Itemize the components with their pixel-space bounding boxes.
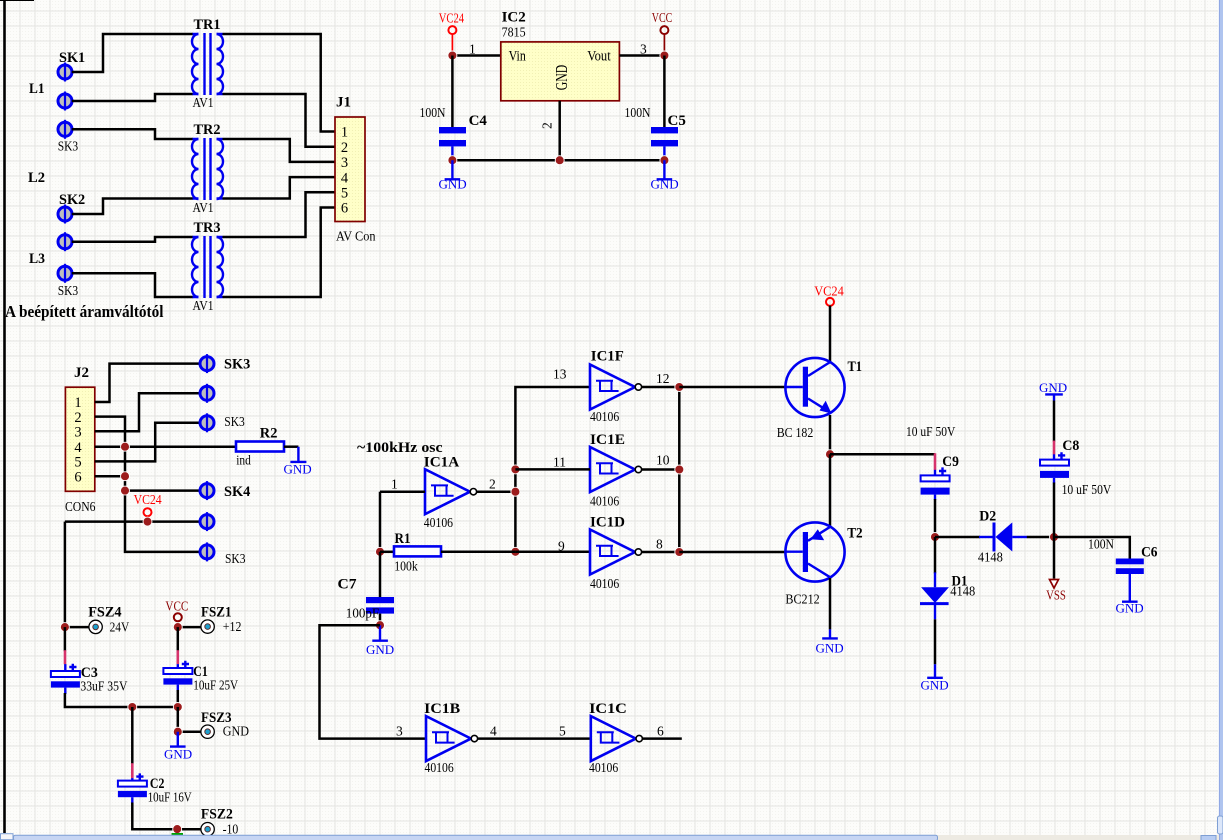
svg-text:CON6: CON6 — [65, 499, 96, 514]
inverter IC1B — [426, 716, 478, 761]
svg-text:5: 5 — [74, 455, 81, 471]
wire VC24 row to pad — [65, 520, 201, 523]
connector J1 — [335, 117, 365, 222]
svg-text:IC2: IC2 — [502, 10, 526, 26]
wire J2 pin2 trunk down to pad SK3-f — [95, 417, 201, 552]
power port VCC (left) — [165, 599, 188, 628]
svg-text:100N: 100N — [420, 105, 446, 120]
wire SK1 to TR1 primary top — [72, 34, 193, 72]
svg-text:SK3: SK3 — [58, 283, 79, 298]
wire C7 to IC1B input pin3 — [320, 625, 427, 738]
wire D1 bottom — [934, 619, 937, 664]
capacitor C7 — [366, 597, 394, 614]
svg-text:VCC: VCC — [165, 599, 188, 614]
svg-text:40106: 40106 — [425, 760, 454, 775]
capacitor C3 polarized — [51, 664, 80, 694]
svg-text:40106: 40106 — [590, 494, 619, 509]
capacitor C6 — [1116, 559, 1144, 575]
wire IC1E out pin10 — [642, 468, 680, 471]
svg-text:5: 5 — [341, 186, 348, 202]
capacitor C4 — [439, 127, 466, 160]
junction FSZ4 — [60, 623, 69, 632]
svg-text:24V: 24V — [110, 619, 130, 634]
pad SK-d — [200, 384, 214, 403]
pin magenta C3 — [64, 650, 67, 664]
svg-text:3: 3 — [341, 155, 348, 171]
wire L1 to TR1 primary bottom — [72, 94, 193, 101]
svg-text:GND: GND — [552, 65, 571, 90]
wire R1 left lead — [380, 551, 394, 554]
svg-text:GND: GND — [164, 747, 192, 762]
wire branch to pad SK4 — [125, 489, 200, 492]
junction bus pin10 — [675, 465, 684, 474]
svg-text:TR2: TR2 — [194, 122, 221, 138]
diode D1 — [920, 572, 949, 619]
wire J2 pin5 to pad SK3 — [95, 423, 201, 462]
wire VC24 to IC2 Vin — [452, 54, 500, 57]
svg-text:AV1: AV1 — [193, 200, 214, 215]
svg-text:VCC: VCC — [652, 10, 673, 25]
svg-text:3: 3 — [396, 724, 403, 739]
svg-text:10: 10 — [656, 453, 670, 468]
pad SK4 — [200, 481, 214, 500]
wire C2 top — [131, 707, 134, 764]
svg-text:IC1E: IC1E — [590, 432, 625, 448]
capacitor C2 polarized — [118, 773, 147, 803]
transistor T1 — [785, 358, 844, 417]
svg-text:SK3: SK3 — [225, 551, 246, 566]
svg-text:AV1: AV1 — [193, 298, 214, 313]
svg-text:10 uF 50V: 10 uF 50V — [906, 424, 956, 439]
svg-text:3: 3 — [74, 425, 81, 441]
testpoint FSZ3 — [201, 725, 214, 738]
svg-text:GND: GND — [366, 642, 394, 657]
wire C2 bottom to FSZ2 — [132, 803, 201, 830]
wire VC24 to T1 collector — [829, 306, 832, 363]
svg-text:33uF 35V: 33uF 35V — [80, 679, 127, 694]
pad L3-a — [58, 232, 72, 251]
wire output bus vertical — [678, 387, 681, 552]
wire IC2 Vout to VCC node — [619, 54, 664, 57]
capacitor C1 polarized — [163, 661, 192, 691]
erc marker green — [172, 833, 184, 835]
wire IC1E input pin11 — [515, 468, 590, 471]
svg-text:4: 4 — [341, 170, 349, 186]
junction rail-C4 — [448, 156, 457, 165]
svg-text:IC1D: IC1D — [590, 515, 625, 531]
svg-text:AV1: AV1 — [193, 95, 214, 110]
svg-text:R2: R2 — [260, 425, 278, 441]
wire L3-b to TR3 primary bottom — [72, 273, 193, 297]
wire D-node to D1 — [934, 537, 937, 573]
junction FSZ2 — [173, 825, 182, 834]
svg-text:6: 6 — [657, 724, 664, 739]
scrollbar right track — [1219, 0, 1223, 840]
svg-text:2: 2 — [489, 477, 496, 492]
svg-text:R1: R1 — [395, 531, 411, 547]
junction R1 left — [376, 547, 385, 556]
resistor R1 — [394, 546, 441, 556]
pad L3-b — [58, 264, 72, 283]
svg-text:IC1C: IC1C — [589, 701, 627, 717]
sheet border top — [0, 0, 34, 2]
pin magenta C9 — [934, 453, 937, 470]
svg-text:GND: GND — [223, 724, 250, 739]
junction VCC — [173, 623, 182, 632]
testpoint FSZ4 — [89, 620, 102, 633]
junction C7 — [376, 621, 385, 630]
svg-text:1: 1 — [469, 42, 476, 57]
testpoint FSZ2 — [201, 823, 214, 836]
svg-text:4: 4 — [490, 724, 497, 739]
svg-text:-10: -10 — [223, 822, 239, 837]
pad SK2 — [58, 205, 72, 224]
wire emitter node to C9 — [830, 453, 935, 456]
wire feedback trunk — [515, 387, 590, 552]
svg-text:VC24: VC24 — [439, 11, 465, 26]
wire SK2 to TR2 primary bottom — [72, 199, 193, 215]
wire J2 pin3 to pad — [95, 393, 201, 431]
svg-text:40106: 40106 — [590, 409, 619, 424]
wire input left vertical — [379, 492, 382, 552]
svg-text:ind: ind — [236, 453, 251, 468]
svg-text:100N: 100N — [625, 105, 651, 120]
wire TR2 secondary top to J1 pin3 — [223, 139, 336, 162]
svg-text:11: 11 — [553, 455, 566, 470]
svg-text:100pF: 100pF — [346, 606, 380, 621]
sheet border left — [3, 0, 6, 833]
svg-text:SK4: SK4 — [224, 484, 251, 500]
svg-text:L1: L1 — [29, 81, 45, 97]
wire IC1D out pin8 — [642, 551, 680, 554]
junction rail C2 — [128, 703, 137, 712]
svg-text:C5: C5 — [668, 113, 686, 129]
svg-text:BC 182: BC 182 — [777, 425, 814, 440]
pad L1-b — [58, 92, 72, 111]
scrollbar bottom-left box — [1, 834, 14, 840]
svg-text:GND: GND — [439, 177, 467, 192]
svg-text:2: 2 — [74, 410, 81, 426]
pad SK3-c — [200, 354, 214, 373]
wire rail down to FSZ3 — [177, 707, 180, 732]
wire to FSZ3 — [178, 730, 201, 733]
testpoint FSZ1 — [201, 620, 214, 633]
wire L3-a to TR3 primary top — [72, 237, 193, 242]
svg-text:C9: C9 — [942, 454, 959, 470]
pin numbers J1 1-6 — [341, 125, 349, 217]
ground GND under C5 — [651, 160, 679, 191]
wire trunk to IC1D input pin9 — [515, 551, 590, 554]
svg-text:AV Con: AV Con — [336, 229, 376, 244]
svg-text:SK1: SK1 — [59, 50, 85, 66]
transformer TR3 — [192, 236, 223, 298]
junction pin6 — [121, 472, 130, 481]
svg-text:GND: GND — [651, 177, 679, 192]
wire ground rail — [452, 159, 664, 162]
svg-text:FSZ2: FSZ2 — [201, 807, 233, 823]
wire VCC to FSZ1 — [178, 626, 201, 629]
ground GND at R2 — [284, 447, 312, 477]
wire IC1F out pin12 — [642, 386, 680, 389]
svg-text:Vout: Vout — [587, 49, 611, 65]
wire GND to C8 — [1053, 401, 1056, 442]
svg-text:100N: 100N — [1088, 537, 1114, 552]
svg-text:10 uF 50V: 10 uF 50V — [1062, 482, 1112, 497]
svg-text:C8: C8 — [1062, 438, 1079, 454]
wire C7 top — [379, 552, 382, 597]
svg-text:GND: GND — [1039, 380, 1067, 395]
wire IC2 pin2 to ground rail — [558, 101, 561, 160]
svg-text:IC1F: IC1F — [591, 349, 624, 365]
ground GND under C7 — [366, 625, 394, 657]
connector J2 — [65, 387, 94, 491]
pad SK3-f — [200, 542, 214, 561]
wire IC1A output pin2 to trunk — [477, 490, 516, 493]
inverter IC1D — [590, 530, 642, 575]
wire TR1 secondary top to J1 pin1 — [223, 34, 336, 132]
svg-text:3: 3 — [640, 42, 647, 57]
wire IC1B out to IC1C in — [478, 737, 591, 740]
svg-text:13: 13 — [553, 367, 567, 382]
svg-text:2: 2 — [341, 140, 348, 156]
svg-text:FSZ4: FSZ4 — [88, 605, 122, 621]
inverter IC1C — [591, 716, 643, 761]
scrollbar bottom button — [1201, 836, 1216, 840]
wire D2 to VSS node — [1027, 536, 1054, 539]
power port VC24 (top) — [439, 11, 465, 56]
svg-text:GND: GND — [284, 462, 312, 477]
diode D2 — [979, 522, 1027, 551]
pad SK3-a — [58, 120, 72, 139]
svg-text:SK3: SK3 — [58, 139, 79, 154]
svg-text:C6: C6 — [1141, 545, 1158, 561]
svg-text:GND: GND — [1116, 601, 1144, 616]
junction Vout/C5 — [660, 51, 669, 60]
svg-text:12: 12 — [656, 371, 670, 386]
ground GND under D1 — [921, 664, 949, 692]
ground GND above C8 — [1039, 380, 1067, 401]
capacitor C5 — [651, 127, 678, 160]
inverter IC1F — [590, 365, 642, 410]
wire TR3 secondary top to J1 pin5 — [223, 192, 336, 237]
svg-text:A beépített áramváltótól: A beépített áramváltótól — [5, 302, 164, 321]
svg-text:T1: T1 — [848, 359, 863, 375]
wire C5 branch — [663, 56, 666, 128]
ic IC2 7815 regulator — [501, 42, 620, 101]
ground GND under C6 — [1116, 574, 1144, 616]
junction rail-pin2 — [555, 156, 564, 165]
svg-text:T2: T2 — [847, 526, 862, 542]
power port VC24 (right) — [814, 284, 844, 306]
pad SK-g — [200, 512, 214, 531]
svg-text:L3: L3 — [29, 251, 45, 267]
pin numbers J2 1-6 — [74, 395, 82, 485]
svg-text:IC1B: IC1B — [424, 701, 460, 717]
wire C1 top — [177, 627, 180, 651]
transistor T2 — [785, 522, 844, 581]
wire to FSZ4 — [65, 626, 89, 629]
junction bus pin8 — [675, 548, 684, 557]
wire C3 bottom to rail — [65, 693, 178, 707]
pin magenta C1 — [177, 650, 180, 664]
wire C9 bottom to D-node — [934, 499, 937, 537]
wire IC1A input pin1 — [380, 490, 425, 493]
pad SK1 — [58, 63, 72, 82]
power port VSS — [1046, 580, 1066, 603]
transformer TR1 — [192, 33, 223, 95]
junction trunk pin11 — [511, 465, 520, 474]
svg-text:J1: J1 — [336, 95, 351, 111]
wire J2 pin6 stub — [95, 475, 125, 478]
pad SK3-e — [200, 413, 214, 432]
wire J2 pin1 to pad SK3 — [95, 364, 201, 402]
power port VCC (top) — [652, 10, 673, 56]
wire TR1 secondary bottom to J1 pin2 — [223, 94, 336, 147]
svg-text:GND: GND — [816, 641, 844, 656]
svg-text:7815: 7815 — [502, 25, 526, 40]
junction bus pin12 — [675, 383, 684, 392]
wire T2 collector down — [829, 578, 832, 629]
junction trunk pin2 — [511, 487, 520, 496]
junction VC24/C4 — [448, 51, 457, 60]
junction pin4 — [121, 442, 130, 451]
inverter IC1A — [425, 469, 477, 514]
wire D-node to D2 — [935, 536, 980, 539]
svg-text:40106: 40106 — [589, 760, 618, 775]
wire VSS stub — [1053, 537, 1056, 579]
svg-text:SK3: SK3 — [224, 414, 245, 429]
scrollbar right button — [1218, 816, 1223, 834]
junction trunk R1 — [511, 547, 520, 556]
svg-text:+12: +12 — [223, 619, 242, 634]
svg-text:40106: 40106 — [590, 576, 619, 591]
wire T1 emitter down — [829, 415, 832, 454]
resistor R2 — [236, 442, 298, 452]
wire TR3 secondary bottom to J1 pin6 — [223, 208, 336, 298]
svg-text:2: 2 — [540, 122, 555, 129]
capacitor C9 polarized — [921, 467, 950, 500]
svg-text:BC212: BC212 — [785, 592, 819, 607]
wire C4 branch — [451, 56, 454, 128]
svg-text:SK2: SK2 — [59, 192, 85, 208]
wire VSS node to C6 — [1054, 537, 1130, 559]
svg-text:VSS: VSS — [1046, 588, 1066, 603]
svg-text:1: 1 — [391, 477, 398, 492]
transformer TR2 — [192, 138, 223, 200]
svg-text:4: 4 — [74, 440, 82, 456]
wire IC1C out pin6 — [643, 737, 682, 740]
svg-text:L2: L2 — [28, 170, 45, 186]
pin magenta C2 — [131, 763, 134, 778]
wire emitter node to T2 — [829, 454, 832, 526]
svg-text:100k: 100k — [394, 559, 418, 574]
svg-text:C4: C4 — [469, 113, 488, 129]
svg-text:J2: J2 — [74, 365, 89, 381]
svg-text:D2: D2 — [979, 509, 996, 525]
pin magenta C8 — [1053, 441, 1056, 455]
svg-text:TR1: TR1 — [194, 17, 221, 33]
svg-text:10uF 16V: 10uF 16V — [148, 790, 192, 805]
junction SK4 branch — [121, 486, 130, 495]
svg-text:VC24: VC24 — [814, 284, 844, 299]
svg-text:8: 8 — [656, 537, 663, 552]
junction VSS node — [1050, 533, 1059, 542]
ground GND under C4 — [439, 160, 467, 191]
wire C1 bottom to rail — [177, 690, 180, 707]
svg-text:GND: GND — [921, 678, 949, 693]
svg-text:9: 9 — [558, 539, 565, 554]
junction D-node — [931, 533, 940, 542]
svg-text:4148: 4148 — [978, 550, 1003, 565]
wire bus to T1 base — [679, 386, 786, 389]
wire SK3-a to TR2 primary top — [72, 129, 193, 139]
junction emitter node — [826, 450, 835, 459]
junction VC24 — [143, 517, 152, 526]
svg-text:4148: 4148 — [950, 584, 975, 599]
scrollbar bottom track — [0, 835, 1219, 840]
wire C7 bottom — [379, 614, 382, 626]
capacitor C8 polarized — [1040, 452, 1069, 483]
wire TR2 secondary bottom to J1 pin4 — [223, 177, 336, 198]
ground GND under FSZ3 rail — [164, 732, 192, 762]
junction rail-C5 — [660, 156, 669, 165]
svg-text:IC1A: IC1A — [424, 455, 460, 471]
svg-text:1: 1 — [74, 395, 81, 411]
svg-text:6: 6 — [74, 469, 81, 485]
svg-text:6: 6 — [341, 201, 348, 217]
ground GND under T2 — [816, 629, 844, 655]
wire bus to T2 base — [679, 551, 786, 554]
wire J2 pin4 to R2 — [95, 445, 236, 448]
wire R1 right to trunk — [441, 551, 515, 554]
wire C8 bottom to VSS node — [1053, 483, 1056, 538]
scrollbar bottom thumb — [14, 835, 938, 840]
svg-text:C7: C7 — [338, 577, 358, 593]
wire VC24 net down to FSZ4 row — [64, 522, 67, 628]
inverter IC1E — [590, 447, 642, 492]
svg-text:10uF 25V: 10uF 25V — [193, 678, 238, 693]
svg-text:1: 1 — [341, 125, 348, 141]
svg-text:Vin: Vin — [509, 49, 527, 65]
svg-text:VC24: VC24 — [134, 492, 162, 507]
power port VC24 (J2) — [134, 492, 162, 522]
svg-text:TR3: TR3 — [194, 220, 221, 236]
svg-text:5: 5 — [559, 724, 566, 739]
junction FSZ3 — [173, 727, 182, 736]
svg-text:SK3: SK3 — [224, 357, 250, 373]
svg-text:40106: 40106 — [424, 515, 453, 530]
junction rail C1 — [173, 703, 182, 712]
wire C3 top — [64, 627, 67, 651]
